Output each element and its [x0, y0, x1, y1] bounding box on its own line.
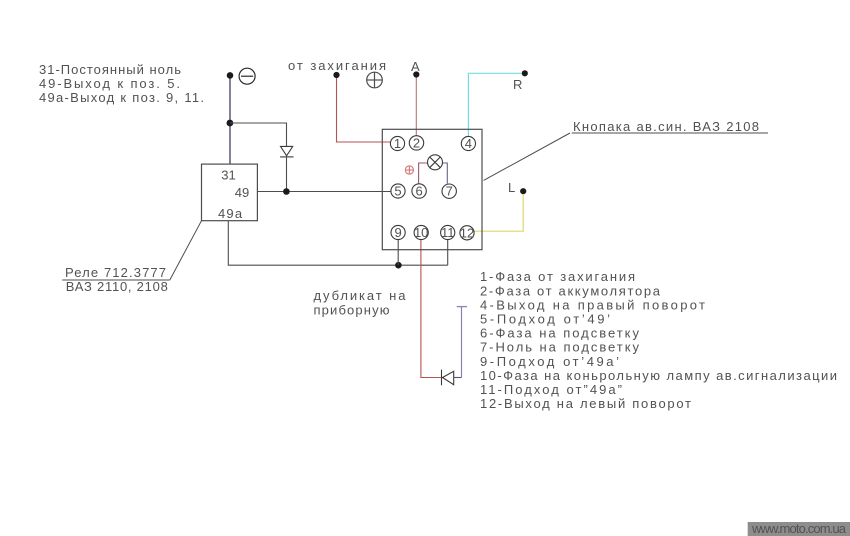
svg-text:49: 49	[235, 185, 249, 200]
minus terminal dot	[227, 72, 234, 79]
svg-text:Кнопака ав.син. ВАЗ 2108: Кнопака ав.син. ВАЗ 2108	[573, 119, 759, 134]
note: relay pin description text block	[39, 62, 204, 105]
svg-text:49а-Выход к поз. 9, 11.: 49а-Выход к поз. 9, 11.	[39, 90, 204, 105]
pin function list	[480, 269, 837, 411]
wire: lamp left lead to pin 6	[419, 163, 428, 183]
terminal cap on blue riser	[457, 306, 467, 308]
svg-text:R: R	[513, 77, 522, 92]
svg-text:49-Выход к поз. 5.: 49-Выход к поз. 5.	[39, 76, 180, 91]
button block outline	[382, 129, 482, 249]
pin 7	[442, 184, 456, 199]
wire: branch from junction right and down to diode D1	[230, 123, 287, 146]
lamp symbol	[428, 155, 443, 170]
svg-text:31-Постоянный ноль: 31-Постоянный ноль	[39, 62, 181, 77]
terminal dot R	[522, 70, 528, 76]
pin 2	[409, 136, 423, 151]
wire: pin 11 down to 49a wire	[447, 240, 449, 265]
svg-text:Реле 712.3777: Реле 712.3777	[65, 265, 166, 280]
pin 6	[412, 184, 426, 199]
wire: yellow from L terminal to pin 12	[475, 194, 524, 231]
plus symbol (ignition)	[367, 72, 383, 88]
wire: red from A terminal to pin 2	[415, 78, 417, 136]
terminal dot ignition	[333, 72, 339, 78]
leader line to button block	[484, 133, 570, 180]
svg-text:11: 11	[441, 225, 455, 240]
svg-text:L: L	[508, 180, 515, 195]
pin 11	[441, 225, 455, 240]
svg-text:4: 4	[465, 136, 472, 151]
terminal dot A	[413, 71, 419, 77]
svg-text:www.moto.com.ua: www.moto.com.ua	[751, 521, 847, 536]
diode D2 (duplicate lamp, pointing left)	[442, 370, 454, 386]
svg-text:1-Фаза от захигания: 1-Фаза от захигания	[480, 269, 635, 284]
wire: 49a output down and right to pins 9/11	[228, 221, 447, 266]
wire: blue riser up to instrument panel terminal	[461, 307, 463, 378]
label: Кнопака ав.син. ВАЗ 2108 with underline	[572, 119, 768, 134]
wire: red from pin 10 down to duplicate diode	[421, 240, 441, 378]
wire: from diode D2 to blue riser	[454, 377, 462, 379]
watermark box	[748, 521, 850, 536]
svg-text:5: 5	[394, 184, 401, 199]
pin 4	[461, 136, 475, 151]
wire: cyan from pin 4 up to R terminal	[468, 73, 521, 136]
wire: pin 9 down to 49a wire	[397, 240, 399, 265]
svg-text:4-Выход на правый поворот: 4-Выход на правый поворот	[480, 297, 705, 312]
pin 9	[391, 225, 405, 240]
pin 5	[391, 184, 405, 199]
svg-text:приборную: приборную	[314, 303, 390, 318]
wire: lamp right lead to pin 7	[443, 163, 448, 184]
svg-text:12-Выход на левый поворот: 12-Выход на левый поворот	[480, 396, 691, 411]
pin 12	[460, 225, 474, 240]
svg-text:10: 10	[414, 225, 428, 240]
svg-text:6: 6	[415, 184, 422, 199]
junction dot on navy wire	[227, 120, 234, 127]
svg-text:9: 9	[394, 225, 401, 240]
svg-text:ВАЗ 2110, 2108: ВАЗ 2110, 2108	[66, 279, 168, 294]
wire: from diode D1 down to 49 wire	[286, 157, 288, 192]
label: дубликат на приборную	[314, 288, 407, 318]
junction dot on 49a wire	[395, 262, 402, 269]
svg-text:12: 12	[460, 225, 474, 240]
diode D1 (pointing down, near relay)	[280, 146, 294, 157]
svg-text:10-Фаза на коньрольную лампу а: 10-Фаза на коньрольную лампу ав.сигнализ…	[480, 368, 837, 383]
svg-text:дубликат на: дубликат на	[314, 288, 407, 303]
minus symbol circle	[239, 68, 255, 84]
svg-text:от захигания: от захигания	[288, 58, 386, 73]
terminal dot L	[520, 188, 526, 194]
pin 10	[414, 225, 428, 240]
junction dot on 49 wire	[283, 188, 290, 195]
pin 1	[390, 136, 404, 151]
svg-text:9-Подход от’49а’: 9-Подход от’49а’	[480, 354, 619, 369]
relay box	[202, 164, 258, 221]
wire: red from ignition terminal to pin 1	[337, 78, 391, 142]
wire: navy from minus terminal down to relay pin 31	[229, 78, 231, 164]
svg-text:2: 2	[413, 136, 420, 151]
wire: 49 output to pin 5	[257, 191, 390, 193]
svg-text:7: 7	[446, 184, 453, 199]
svg-text:49а: 49а	[218, 206, 243, 221]
label: Реле 712.3777 with underline	[62, 265, 170, 280]
svg-text:11-Подход от”49а”: 11-Подход от”49а”	[480, 382, 622, 397]
svg-text:31: 31	[221, 168, 235, 183]
red plus symbol inside block	[405, 166, 413, 174]
svg-text:1: 1	[394, 136, 401, 151]
leader line to relay box	[170, 221, 202, 280]
